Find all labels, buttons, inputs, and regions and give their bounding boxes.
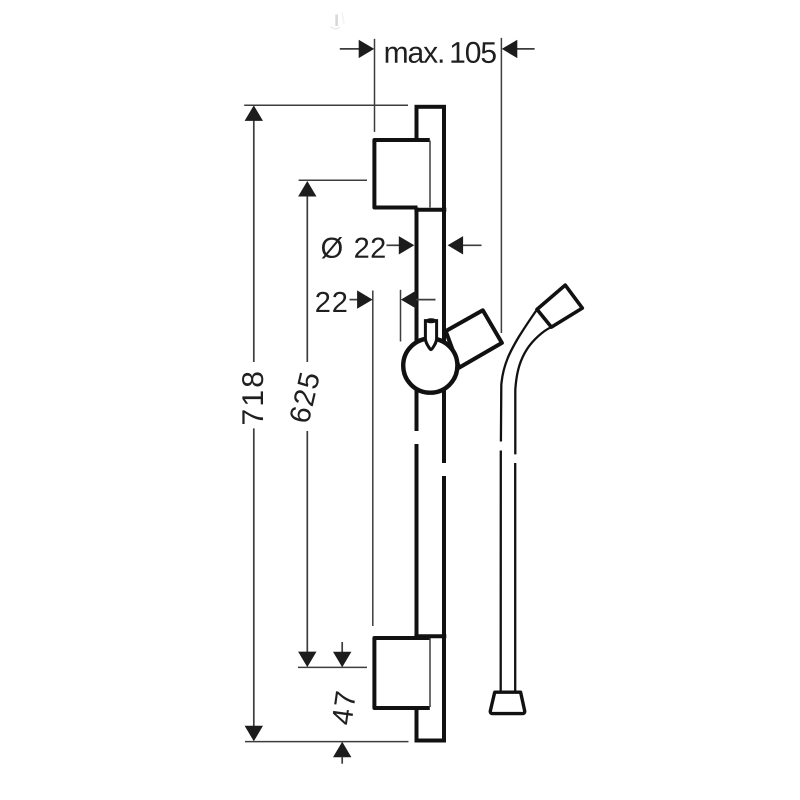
pin top cap: [426, 318, 437, 323]
dim 625 line upper: [306, 195, 308, 362]
dim 22 left tail: [350, 299, 359, 301]
dim dia22 right tail: [463, 244, 482, 246]
dim max105 left arrow: [359, 40, 375, 58]
dim 22 right arrow: [401, 290, 417, 308]
dim 22 extension line B: [400, 290, 402, 342]
dim 718 top arrow: [245, 105, 263, 121]
bottom bracket junction: [414, 634, 446, 638]
dim dia22 right arrow: [448, 236, 464, 254]
svg-text:22: 22: [315, 287, 349, 319]
svg-text:718: 718: [237, 369, 270, 426]
dim max105 left tail: [340, 48, 360, 50]
bar break right: [440, 463, 449, 476]
dim 625 bottom arrow: [298, 652, 316, 668]
dim 47 bottom arrow: [333, 742, 351, 758]
dim 22 extension line A: [372, 291, 374, 627]
dim 718 line lower: [253, 428, 255, 728]
dim 718 bottom arrow: [245, 726, 263, 742]
dim 718 bottom extension line: [245, 741, 409, 743]
dim max105 left extension line: [374, 39, 376, 132]
dim 47 bottom tail: [341, 757, 343, 764]
svg-text:22: 22: [354, 233, 387, 265]
hose right edge: [515, 328, 550, 692]
hose connector: [537, 285, 582, 327]
top bracket: [374, 140, 429, 208]
dim 718 top extension line: [244, 104, 408, 106]
svg-text:max. 105: max. 105: [384, 37, 497, 70]
wall bar: [417, 107, 445, 741]
dim max105 right arrow: [502, 40, 518, 58]
dim 625 bottom extension line: [298, 666, 367, 668]
svg-text:Ø: Ø: [321, 233, 344, 265]
faint watermark mark top: [330, 12, 344, 29]
slider pin: [425, 321, 436, 350]
hose left edge: [501, 310, 537, 692]
bar break left: [412, 431, 420, 444]
dim 625 line lower: [306, 431, 308, 653]
bottom bracket: [374, 638, 429, 708]
svg-text:47: 47: [326, 687, 363, 727]
dim 22 left arrow: [357, 290, 373, 308]
dim 22 right tail: [416, 299, 436, 301]
dim 625 top extension line: [299, 179, 367, 181]
dim 625 top arrow: [298, 181, 316, 197]
dim 47 top tail: [341, 642, 343, 653]
dim dia22 left arrow: [399, 236, 415, 254]
slider circle: [403, 339, 457, 393]
dim 718 line upper: [253, 119, 255, 362]
holder arm: [446, 310, 502, 367]
dim max105 right extension line: [500, 38, 502, 333]
dim dia22 left tail: [387, 244, 400, 246]
hose end cone: [490, 692, 524, 713]
dim 47 top arrow: [333, 652, 351, 668]
dim max105 right tail: [517, 48, 535, 50]
top bracket junction: [414, 208, 446, 212]
